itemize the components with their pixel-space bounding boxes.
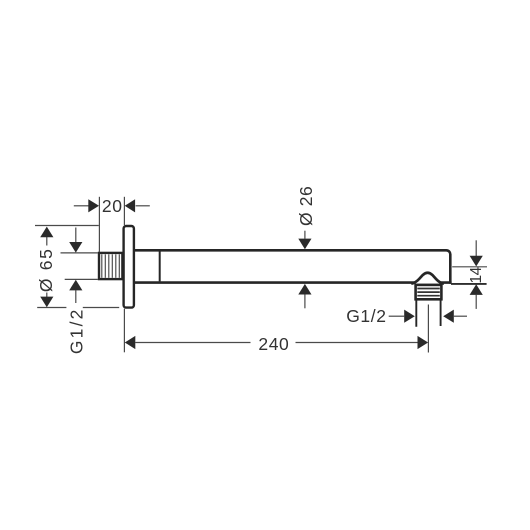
svg-text:Ø 65: Ø 65 (36, 247, 56, 292)
wall thread hatch lines (102, 254, 120, 277)
dimension D26 lines (304, 231, 306, 309)
svg-text:240: 240 (258, 334, 289, 354)
svg-text:14: 14 (468, 266, 485, 283)
shower arm tube top and right edge (135, 250, 450, 283)
svg-text:20: 20 (102, 196, 123, 216)
wall flange (escutcheon) (124, 226, 134, 308)
outlet dome (411, 273, 444, 284)
outlet pipe sides (416, 300, 440, 327)
dimension 14 bottom extension (tube bottom continuation) (451, 283, 487, 285)
dimension D65 extension and dim lines (35, 226, 119, 308)
dimension 20 arrows (88, 199, 99, 212)
outlet thread inner lines (417, 289, 440, 296)
dimension 240 arrows (125, 336, 136, 349)
wall thread dimension arrows (69, 242, 82, 253)
dimension 14 arrows (470, 256, 483, 267)
svg-text:G1/2: G1/2 (67, 307, 87, 354)
outlet thread nipple (416, 285, 442, 299)
dimension 240 extension lines (124, 305, 428, 353)
dimension D26 arrows (298, 239, 311, 250)
dimension 14 lines (452, 240, 487, 309)
G1/2 right arrows (404, 310, 415, 323)
svg-text:G1/2: G1/2 (346, 306, 386, 326)
svg-text:Ø 26: Ø 26 (296, 186, 316, 226)
wall thread dimension lines (61, 228, 98, 304)
dimension D65 arrows (40, 227, 53, 238)
shower arm tube bottom edge (135, 281, 452, 284)
wall thread connector G1/2 (99, 253, 122, 279)
dimension 20 extension lines (74, 197, 150, 252)
G1/2 right leader lines (389, 315, 467, 317)
tube joint line (159, 252, 161, 282)
